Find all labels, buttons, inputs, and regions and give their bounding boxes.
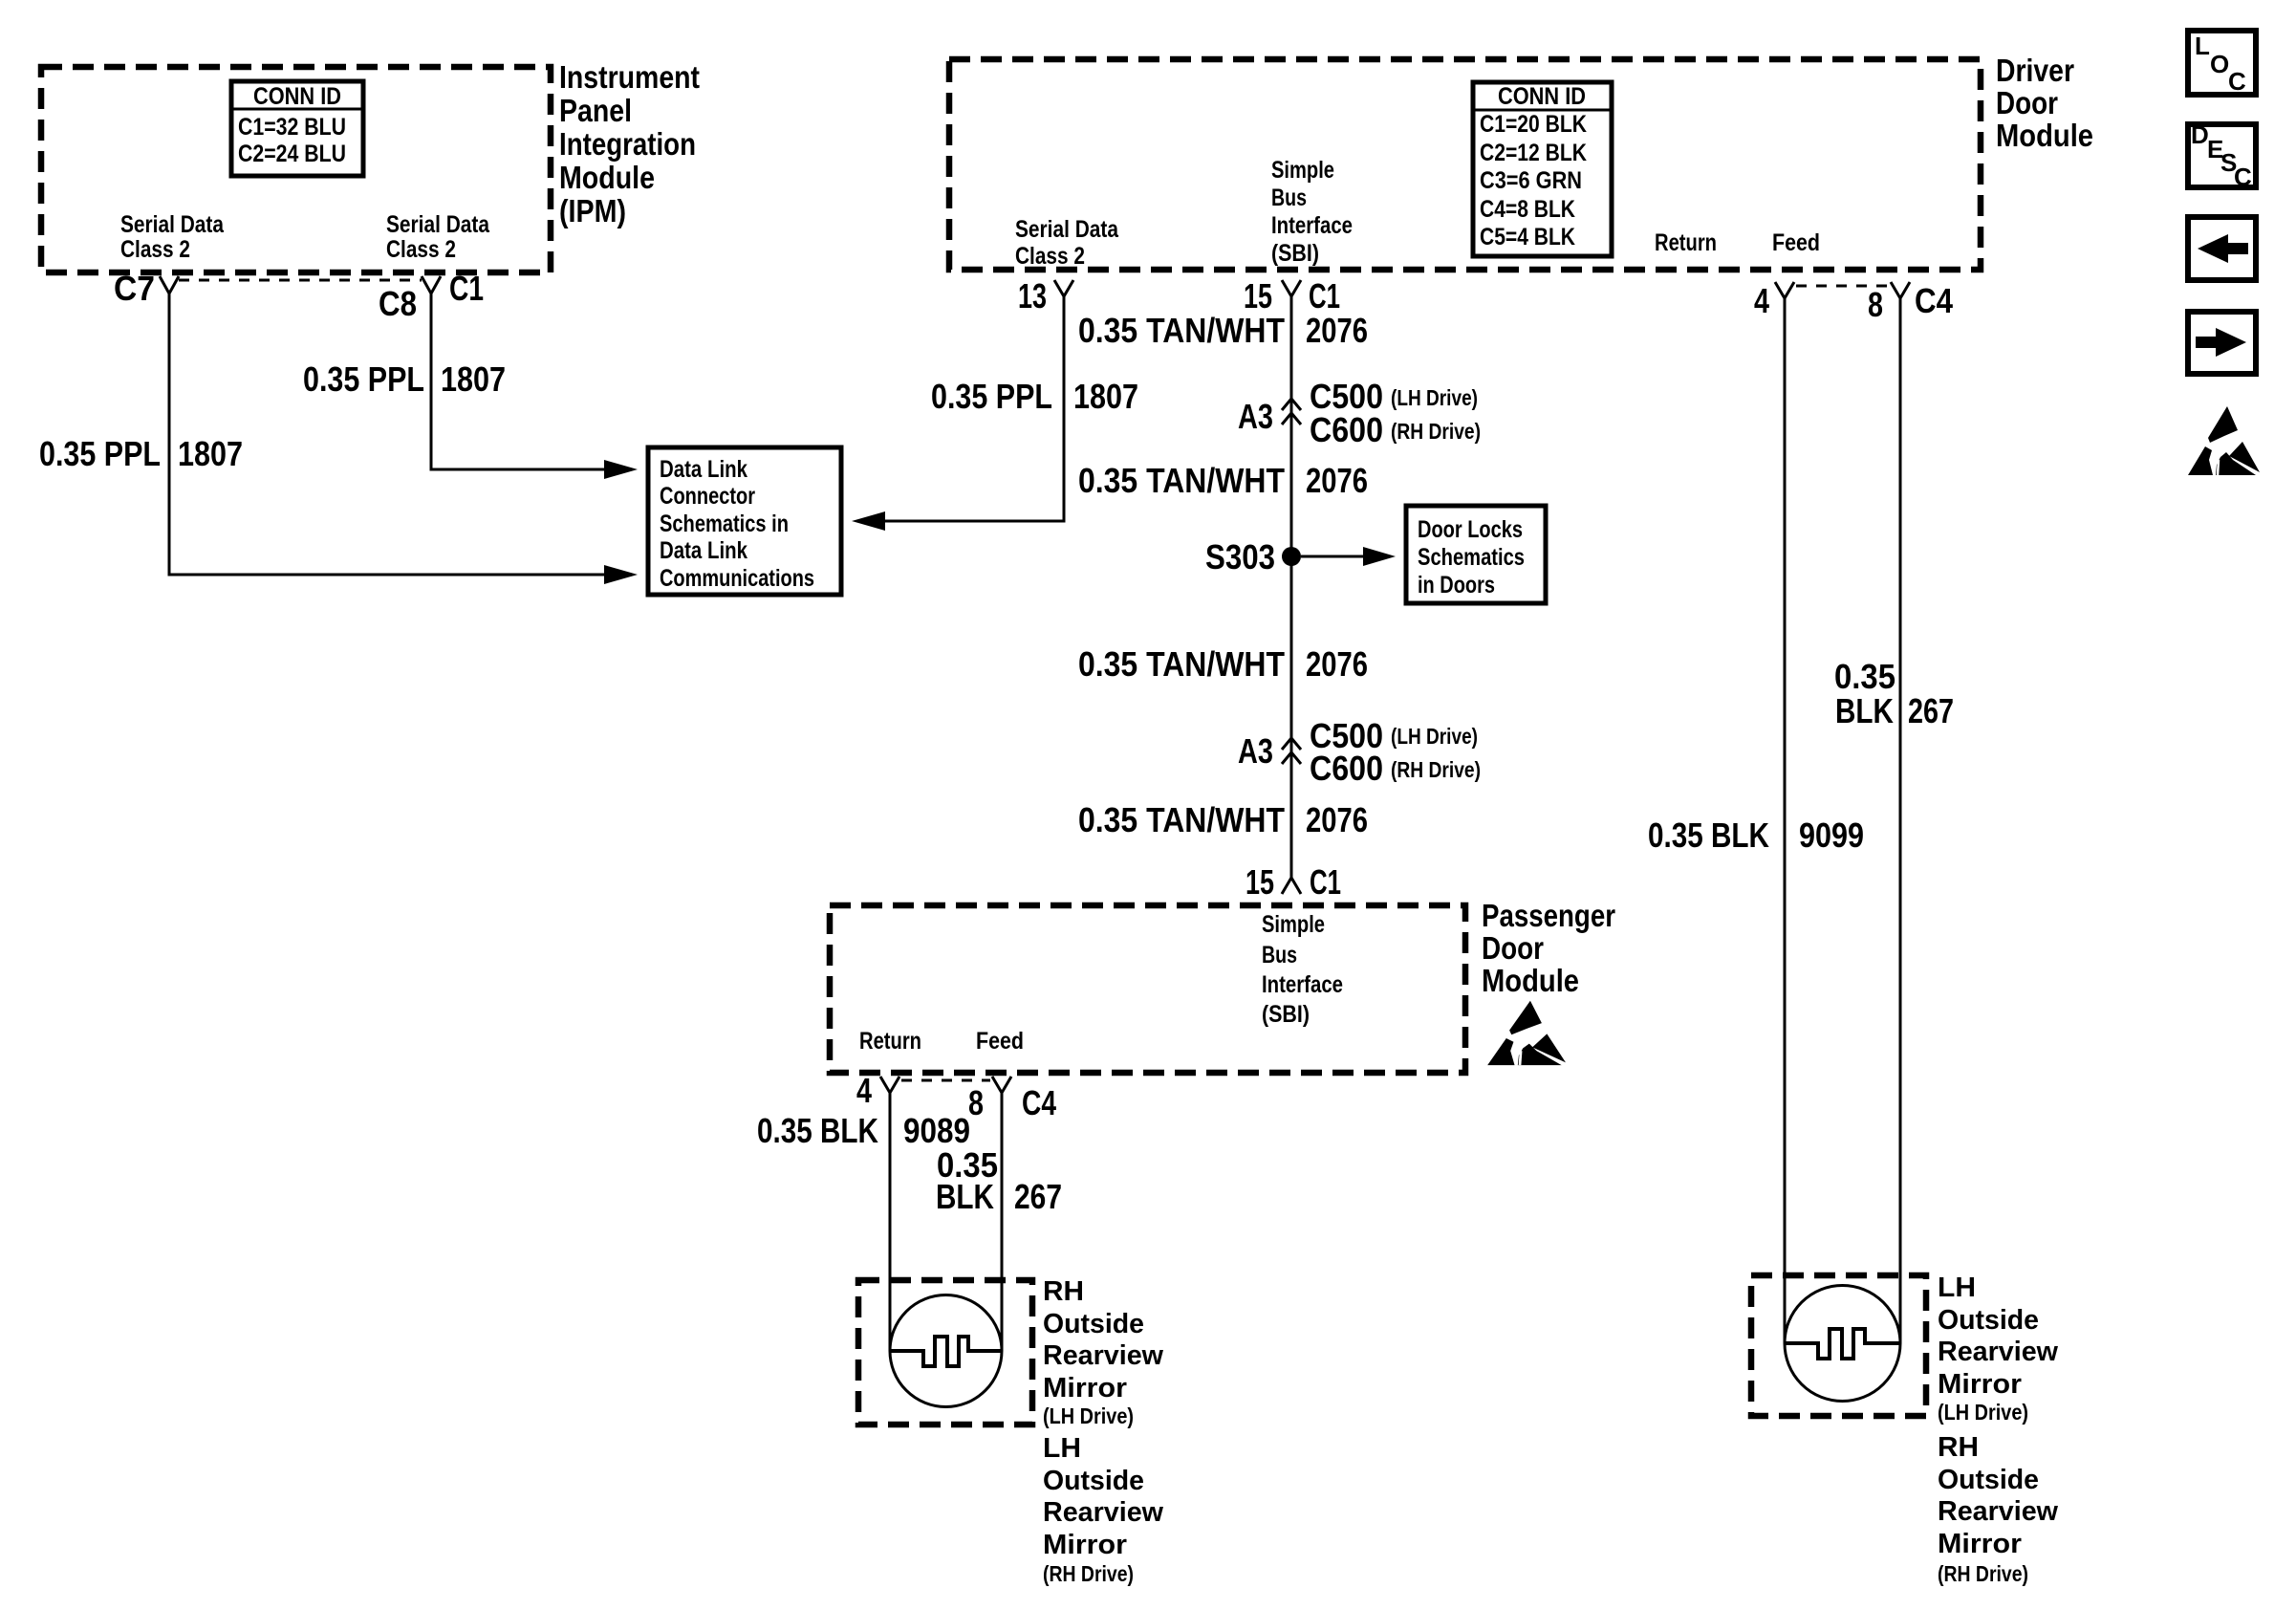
label: pin C4 (passenger) bbox=[1022, 1083, 1056, 1122]
svg-text:C1=32 BLU: C1=32 BLU bbox=[238, 114, 346, 141]
label: pin C1 bbox=[449, 269, 484, 308]
label: 267 (passenger feed wire) bbox=[1014, 1177, 1062, 1216]
svg-text:A3: A3 bbox=[1238, 397, 1273, 436]
svg-text:S303: S303 bbox=[1205, 537, 1275, 577]
connector line (dashed) between IPM pins C7 and C8 bbox=[179, 279, 422, 282]
svg-text:0.35 PPL: 0.35 PPL bbox=[39, 434, 161, 473]
svg-text:Serial Data: Serial Data bbox=[120, 211, 225, 238]
svg-text:(RH Drive): (RH Drive) bbox=[1391, 419, 1481, 444]
svg-text:Outside: Outside bbox=[1938, 1465, 2039, 1495]
arrowhead into Data Link box (lower) bbox=[604, 565, 638, 584]
svg-text:Outside: Outside bbox=[1043, 1309, 1144, 1339]
component: RH Outside Rearview Mirror, dashed box bbox=[858, 1280, 1032, 1425]
svg-text:Rearview: Rearview bbox=[1043, 1497, 1163, 1528]
label: Serial Data Class 2 (Driver pin 13) bbox=[1015, 216, 1119, 270]
arrowhead into Door Locks box bbox=[1363, 547, 1396, 566]
pin 4 (Passenger) connector Y symbol bbox=[880, 1077, 899, 1093]
label: Feed (Passenger pin 8) bbox=[976, 1028, 1024, 1055]
svg-text:9099: 9099 bbox=[1799, 816, 1864, 855]
svg-text:C2=24 BLU: C2=24 BLU bbox=[238, 141, 346, 167]
svg-text:Mirror: Mirror bbox=[1938, 1369, 2022, 1400]
pin C7 (IPM) connector Y symbol bbox=[160, 276, 179, 294]
label: 0.35 TAN/WHT (segment 3) bbox=[1078, 644, 1285, 684]
svg-text:Class 2: Class 2 bbox=[1015, 243, 1085, 270]
svg-text:0.35: 0.35 bbox=[1834, 657, 1895, 696]
svg-text:Class 2: Class 2 bbox=[386, 236, 456, 263]
svg-text:15: 15 bbox=[1244, 276, 1272, 315]
pin 13 (Driver) connector Y symbol bbox=[1054, 280, 1073, 296]
label: 9099 (driver return wire) bbox=[1799, 816, 1864, 855]
svg-text:C3=6 GRN: C3=6 GRN bbox=[1480, 167, 1582, 194]
svg-text:15: 15 bbox=[1245, 862, 1274, 902]
svg-text:C1: C1 bbox=[1309, 276, 1340, 315]
wire: Feed 0.35 BLK 267 from Driver pin 8 down to LH mirror bbox=[1899, 298, 1902, 1343]
pin 15 C1 (Driver) connector Y symbol bbox=[1282, 280, 1301, 296]
svg-text:CONN ID: CONN ID bbox=[253, 83, 341, 110]
label: C500 (lower connector) bbox=[1310, 716, 1383, 755]
wire: Feed 0.35 BLK 267 from Passenger pin 8 down to RH mirror bbox=[1001, 1093, 1004, 1351]
label: LH Outside Rearview Mirror (RH Drive) bbox=[1043, 1433, 1163, 1586]
svg-text:2076: 2076 bbox=[1306, 461, 1368, 500]
connector ID table (Driver Door Module) bbox=[1473, 82, 1612, 256]
svg-text:LH: LH bbox=[1938, 1273, 1976, 1303]
svg-text:(LH Drive): (LH Drive) bbox=[1391, 385, 1478, 410]
wire: Return 0.35 BLK 9099 from Driver pin 4 down to LH mirror bbox=[1784, 298, 1787, 1343]
label: Serial Data Class 2 (IPM pin C7) bbox=[120, 211, 225, 263]
svg-text:Door: Door bbox=[1482, 930, 1544, 966]
svg-text:Mirror: Mirror bbox=[1938, 1529, 2022, 1559]
icon: right arrow box bbox=[2188, 312, 2256, 374]
svg-text:Driver: Driver bbox=[1996, 53, 2074, 88]
label: 2076 (segment 2) bbox=[1306, 461, 1368, 500]
label: Simple Bus Interface (SBI) (Passenger pin 15) bbox=[1262, 911, 1343, 1028]
svg-text:4: 4 bbox=[1754, 281, 1769, 320]
svg-text:RH: RH bbox=[1043, 1276, 1084, 1307]
svg-text:BLK: BLK bbox=[936, 1177, 994, 1216]
svg-text:C8: C8 bbox=[379, 284, 417, 323]
svg-text:Data Link: Data Link bbox=[660, 537, 747, 564]
svg-text:L: L bbox=[2195, 32, 2210, 60]
svg-text:Door Locks: Door Locks bbox=[1418, 516, 1523, 543]
svg-text:Connector: Connector bbox=[660, 483, 755, 510]
svg-text:Outside: Outside bbox=[1938, 1305, 2039, 1336]
label: RH Outside Rearview Mirror (RH Drive) bbox=[1938, 1432, 2058, 1586]
pin 8 (Driver) connector Y symbol bbox=[1891, 282, 1910, 298]
label: 0.35 PPL (C8 wire) bbox=[303, 359, 424, 399]
mirror actuator element (RH mirror pulse symbol) bbox=[890, 1337, 1002, 1366]
svg-text:0.35 TAN/WHT: 0.35 TAN/WHT bbox=[1078, 644, 1285, 684]
connector line (dashed) between Driver pins 4 and 8 bbox=[1796, 285, 1889, 288]
module: Driver Door Module, dashed box bbox=[949, 59, 1981, 270]
svg-text:CONN ID: CONN ID bbox=[1498, 83, 1586, 110]
label: 0.35 BLK (passenger return wire) bbox=[757, 1111, 878, 1150]
label: Feed (Driver pin 8) bbox=[1772, 229, 1820, 256]
svg-text:(RH Drive): (RH Drive) bbox=[1391, 757, 1481, 782]
label: pin 15 (passenger) bbox=[1245, 862, 1274, 902]
pin 15 C1 (Passenger) inverted-Y connector symbol bbox=[1282, 878, 1301, 894]
label: pin C7 bbox=[114, 269, 155, 308]
splice S303 junction dot bbox=[1282, 547, 1301, 566]
icon: DESC box bbox=[2188, 120, 2256, 191]
wire: 0.35 PPL 1807 from IPM C8/C1 down then right to Data Link box (arrow) bbox=[431, 294, 604, 469]
svg-text:Rearview: Rearview bbox=[1938, 1496, 2058, 1527]
svg-text:0.35 TAN/WHT: 0.35 TAN/WHT bbox=[1078, 800, 1285, 839]
svg-text:0.35 BLK: 0.35 BLK bbox=[1648, 816, 1769, 855]
svg-text:(LH Drive): (LH Drive) bbox=[1391, 724, 1478, 749]
label: 0.35 PPL (C7 wire) bbox=[39, 434, 161, 473]
label: Simple Bus Interface (SBI) (Driver pin 15) bbox=[1271, 157, 1353, 267]
label: 9089 (passenger return wire) bbox=[903, 1111, 970, 1150]
icon: left arrow box bbox=[2188, 217, 2256, 280]
svg-text:O: O bbox=[2210, 50, 2229, 78]
svg-text:Return: Return bbox=[1655, 229, 1717, 256]
label: 2076 (segment 1) bbox=[1306, 311, 1368, 350]
connector ID table (IPM): CONN ID C1=32 BLU C2=24 BLU bbox=[231, 81, 363, 176]
svg-text:267: 267 bbox=[1908, 691, 1954, 730]
svg-text:Panel: Panel bbox=[559, 93, 632, 128]
svg-text:Communications: Communications bbox=[660, 565, 814, 592]
mirror actuator element (LH mirror pulse symbol) bbox=[1785, 1329, 1900, 1359]
icon: LOC box bbox=[2188, 31, 2256, 96]
label: 0.35 TAN/WHT (segment 2) bbox=[1078, 461, 1285, 500]
svg-text:C5=4 BLK: C5=4 BLK bbox=[1480, 224, 1575, 250]
svg-text:(SBI): (SBI) bbox=[1271, 240, 1319, 267]
connector A3 C500/C600 (upper) chevron symbol bbox=[1282, 399, 1301, 424]
svg-text:0.35 TAN/WHT: 0.35 TAN/WHT bbox=[1078, 311, 1285, 350]
label: 0.35 PPL (pin 13 wire) bbox=[931, 377, 1052, 416]
svg-text:(LH Drive): (LH Drive) bbox=[1043, 1403, 1134, 1428]
svg-text:Bus: Bus bbox=[1271, 185, 1307, 211]
label: 0.35 TAN/WHT (segment 1) bbox=[1078, 311, 1285, 350]
label: pin 4 (driver) bbox=[1754, 281, 1769, 320]
svg-text:(LH Drive): (LH Drive) bbox=[1938, 1400, 2028, 1425]
label: (RH Drive) (upper connector) bbox=[1391, 419, 1481, 444]
label: (RH Drive) (lower connector) bbox=[1391, 757, 1481, 782]
label: C500 (upper connector) bbox=[1310, 377, 1383, 416]
svg-text:Passenger: Passenger bbox=[1482, 898, 1615, 933]
label: Passenger Door Module name bbox=[1482, 898, 1615, 998]
svg-text:C4: C4 bbox=[1022, 1083, 1056, 1122]
label: C600 (upper connector) bbox=[1310, 410, 1383, 449]
label: 1807 (C7 wire) bbox=[178, 434, 243, 473]
svg-text:BLK: BLK bbox=[1835, 691, 1894, 730]
label: 1807 (C8 wire) bbox=[441, 359, 506, 399]
svg-text:Data Link: Data Link bbox=[660, 456, 747, 483]
svg-text:Module: Module bbox=[1482, 963, 1579, 998]
label: pin 13 bbox=[1018, 276, 1047, 315]
module: Passenger Door Module, dashed box bbox=[830, 905, 1465, 1073]
svg-text:Return: Return bbox=[859, 1028, 921, 1055]
svg-text:13: 13 bbox=[1018, 276, 1047, 315]
svg-text:Schematics in: Schematics in bbox=[660, 511, 789, 537]
mirror motor circle (LH mirror) bbox=[1785, 1286, 1900, 1402]
label: RH Outside Rearview Mirror (LH Drive) bbox=[1043, 1276, 1163, 1428]
svg-text:RH: RH bbox=[1938, 1432, 1979, 1463]
svg-text:Serial Data: Serial Data bbox=[386, 211, 490, 238]
ESD sensitivity symbol (Passenger Door Module) bbox=[1487, 1001, 1566, 1065]
svg-text:Door: Door bbox=[1996, 85, 2058, 120]
label: BLK (driver feed wire) bbox=[1835, 691, 1894, 730]
wire: from S303 right to Door Locks box (arrow) bbox=[1301, 555, 1363, 558]
reference box: Data Link Connector Schematics in Data Link Communications bbox=[648, 447, 841, 595]
svg-text:Instrument: Instrument bbox=[559, 59, 700, 95]
svg-text:Module: Module bbox=[1996, 118, 2093, 153]
label: C600 (lower connector) bbox=[1310, 749, 1383, 788]
svg-text:Integration: Integration bbox=[559, 126, 696, 162]
label: pin 8 (passenger) bbox=[968, 1083, 984, 1122]
svg-text:0.35 TAN/WHT: 0.35 TAN/WHT bbox=[1078, 461, 1285, 500]
label: LH Outside Rearview Mirror (LH Drive) bbox=[1938, 1273, 2058, 1425]
label: 0.35 (passenger feed wire) bbox=[937, 1145, 998, 1185]
pin 4 (Driver) connector Y symbol bbox=[1775, 282, 1794, 298]
label: BLK (passenger feed wire) bbox=[936, 1177, 994, 1216]
mirror motor circle (RH mirror) bbox=[890, 1295, 1002, 1407]
arrowhead into Data Link box (upper) bbox=[604, 460, 638, 479]
svg-text:C2=12 BLK: C2=12 BLK bbox=[1480, 140, 1587, 166]
svg-text:C600: C600 bbox=[1310, 749, 1383, 788]
svg-text:9089: 9089 bbox=[903, 1111, 970, 1150]
svg-text:Rearview: Rearview bbox=[1043, 1340, 1163, 1371]
label: A3 (upper connector) bbox=[1238, 397, 1273, 436]
label: S303 bbox=[1205, 537, 1275, 577]
label: A3 (lower connector) bbox=[1238, 731, 1273, 771]
svg-text:Feed: Feed bbox=[976, 1028, 1024, 1055]
label: 2076 (segment 3) bbox=[1306, 644, 1368, 684]
svg-text:2076: 2076 bbox=[1306, 644, 1368, 684]
svg-text:Mirror: Mirror bbox=[1043, 1530, 1127, 1560]
svg-text:C1: C1 bbox=[449, 269, 484, 308]
svg-text:Schematics: Schematics bbox=[1418, 544, 1525, 571]
label: 0.35 BLK (driver return wire) bbox=[1648, 816, 1769, 855]
wire: 0.35 PPL 1807 from IPM C7 down then right to Data Link box (arrow) bbox=[169, 294, 604, 575]
svg-text:in Doors: in Doors bbox=[1418, 572, 1495, 598]
label: Driver Door Module name bbox=[1996, 53, 2093, 153]
svg-text:4: 4 bbox=[856, 1071, 872, 1110]
pin C8/C1 (IPM) connector Y symbol bbox=[422, 276, 441, 294]
svg-text:C1: C1 bbox=[1310, 862, 1341, 902]
svg-text:0.35 PPL: 0.35 PPL bbox=[303, 359, 424, 399]
module: Instrument Panel Integration Module (IPM), dashed box bbox=[41, 67, 551, 272]
svg-text:0.35 BLK: 0.35 BLK bbox=[757, 1111, 878, 1150]
label: pin 4 (passenger) bbox=[856, 1071, 872, 1110]
svg-text:0.35 PPL: 0.35 PPL bbox=[931, 377, 1052, 416]
label: 267 (driver feed wire) bbox=[1908, 691, 1954, 730]
label: 0.35 TAN/WHT (segment 4) bbox=[1078, 800, 1285, 839]
label: (LH Drive) (lower connector) bbox=[1391, 724, 1478, 749]
icon: ESD sensitivity symbol (top right) bbox=[2188, 406, 2260, 475]
svg-text:Simple: Simple bbox=[1271, 157, 1334, 184]
svg-text:(IPM): (IPM) bbox=[559, 193, 626, 228]
svg-text:D: D bbox=[2191, 120, 2209, 149]
svg-text:C1=20 BLK: C1=20 BLK bbox=[1480, 111, 1587, 138]
svg-text:Interface: Interface bbox=[1271, 212, 1353, 239]
svg-text:Simple: Simple bbox=[1262, 911, 1325, 938]
wire: 0.35 PPL 1807 from Driver pin 13 down then left to Data Link box (arrow) bbox=[885, 296, 1064, 521]
label: Return (Driver pin 4) bbox=[1655, 229, 1717, 256]
svg-text:267: 267 bbox=[1014, 1177, 1062, 1216]
svg-text:(RH Drive): (RH Drive) bbox=[1043, 1561, 1134, 1586]
svg-text:2076: 2076 bbox=[1306, 311, 1368, 350]
svg-text:LH: LH bbox=[1043, 1433, 1081, 1464]
arrowhead into Data Link box right side bbox=[852, 511, 885, 531]
svg-text:Class 2: Class 2 bbox=[120, 236, 190, 263]
label: pin C1 (driver top) bbox=[1309, 276, 1340, 315]
label: Serial Data Class 2 (IPM pin C1) bbox=[386, 211, 490, 263]
svg-text:8: 8 bbox=[1868, 285, 1883, 324]
label: 1807 (pin 13 wire) bbox=[1073, 377, 1138, 416]
label: pin 8 (driver) bbox=[1868, 285, 1883, 324]
svg-text:C: C bbox=[2234, 163, 2252, 191]
svg-text:Interface: Interface bbox=[1262, 971, 1343, 998]
svg-text:C4=8 BLK: C4=8 BLK bbox=[1480, 196, 1575, 223]
label: 2076 (segment 4) bbox=[1306, 800, 1368, 839]
svg-text:C600: C600 bbox=[1310, 410, 1383, 449]
component: LH Outside Rearview Mirror, dashed box bbox=[1751, 1275, 1926, 1416]
wire: Return 0.35 BLK 9089 from Passenger pin 4 down to RH mirror bbox=[889, 1093, 892, 1351]
svg-text:Feed: Feed bbox=[1772, 229, 1820, 256]
svg-text:1807: 1807 bbox=[441, 359, 506, 399]
svg-text:2076: 2076 bbox=[1306, 800, 1368, 839]
svg-text:C7: C7 bbox=[114, 269, 155, 308]
label: pin C1 (passenger) bbox=[1310, 862, 1341, 902]
svg-text:1807: 1807 bbox=[1073, 377, 1138, 416]
label: IPM module name bbox=[559, 59, 700, 228]
svg-text:Mirror: Mirror bbox=[1043, 1373, 1127, 1403]
svg-text:C4: C4 bbox=[1915, 281, 1953, 320]
svg-text:C: C bbox=[2228, 67, 2246, 96]
label: pin C4 (driver) bbox=[1915, 281, 1953, 320]
svg-text:Rearview: Rearview bbox=[1938, 1337, 2058, 1367]
svg-text:Serial Data: Serial Data bbox=[1015, 216, 1119, 243]
label: pin C8 bbox=[379, 284, 417, 323]
wire: 0.35 TAN/WHT 2076 serial data bus from Driver pin 15 down to Passenger pin 15 bbox=[1290, 296, 1293, 878]
svg-text:Bus: Bus bbox=[1262, 942, 1297, 968]
svg-text:Outside: Outside bbox=[1043, 1466, 1144, 1496]
label: 0.35 (driver feed wire) bbox=[1834, 657, 1895, 696]
svg-text:Module: Module bbox=[559, 160, 655, 195]
label: Return (Passenger pin 4) bbox=[859, 1028, 921, 1055]
svg-text:1807: 1807 bbox=[178, 434, 243, 473]
svg-text:(SBI): (SBI) bbox=[1262, 1001, 1310, 1028]
svg-text:A3: A3 bbox=[1238, 731, 1273, 771]
svg-text:8: 8 bbox=[968, 1083, 984, 1122]
reference box: Door Locks Schematics in Doors bbox=[1406, 506, 1546, 603]
pin 8 (Passenger) connector Y symbol bbox=[992, 1077, 1011, 1093]
svg-text:(RH Drive): (RH Drive) bbox=[1938, 1561, 2028, 1586]
label: (LH Drive) (upper connector) bbox=[1391, 385, 1478, 410]
label: pin 15 bbox=[1244, 276, 1272, 315]
connector A3 C500/C600 (lower) chevron symbol bbox=[1282, 738, 1301, 764]
connector line (dashed) between Passenger pins 4 and 8 bbox=[901, 1079, 990, 1082]
